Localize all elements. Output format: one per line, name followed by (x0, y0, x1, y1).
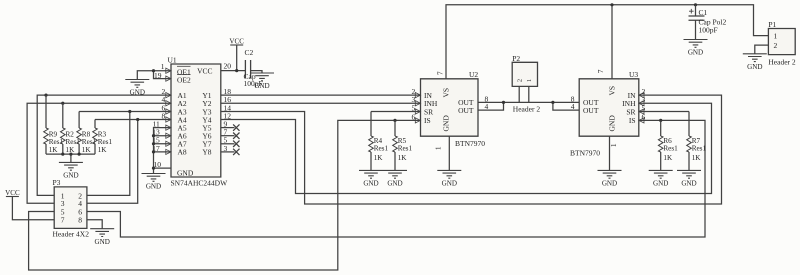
resistor R8 1K (77, 112, 97, 155)
svg-text:C1: C1 (699, 8, 708, 17)
resistor R7 1K (687, 112, 707, 171)
wire net P3 pin6 to U3 IS (bottom loop) (87, 119, 705, 237)
svg-text:GND: GND (442, 180, 457, 188)
svg-text:1: 1 (161, 62, 165, 71)
resistor R2 1K (61, 103, 81, 154)
svg-text:VS: VS (442, 88, 451, 98)
ground GND at P3 pin8 (90, 229, 114, 246)
svg-text:Res1: Res1 (398, 145, 413, 153)
svg-text:GND: GND (95, 238, 110, 246)
svg-text:SR: SR (626, 107, 635, 116)
wire U3 GND pin1 to ground (609, 136, 611, 170)
svg-text:OUT: OUT (583, 106, 599, 115)
power VCC above C2 (229, 38, 244, 46)
ground GND at U1 OE pins (125, 80, 149, 97)
svg-text:GND: GND (747, 63, 762, 71)
wire OE1/OE2 net to ground (137, 69, 171, 79)
svg-text:Res1: Res1 (663, 145, 678, 153)
wire net Y1: U1 pin18 to U2 IN (221, 94, 421, 96)
resistor R3 1K (93, 120, 113, 155)
svg-text:IS: IS (629, 116, 636, 125)
wire P1 pin2 to ground (755, 45, 769, 54)
ground GND at U2 pin1 (437, 170, 461, 187)
wire ground rail under R9 R2 R8 R3 (46, 153, 95, 163)
ground GND under R6 (649, 170, 673, 187)
transistor driver U2 BTN7970 (412, 70, 489, 150)
svg-text:7: 7 (435, 71, 444, 75)
wire net A2: U1 pin4 to P3 pin3 and R2 (27, 102, 171, 204)
op-amp U1 buffer SN74AHC244DW (152, 56, 239, 188)
ground GND at C1 (684, 40, 708, 57)
resistor R4 1K (369, 112, 389, 171)
wire U2 GND pin1 to ground (448, 136, 450, 170)
svg-text:Header 2: Header 2 (768, 57, 796, 66)
wire VS supply rail to U2 U3 and P1 pin1 (446, 3, 768, 79)
svg-text:VCC: VCC (229, 38, 244, 46)
svg-text:1K: 1K (82, 146, 92, 154)
svg-text:Y8: Y8 (202, 148, 211, 157)
svg-text:U2: U2 (469, 70, 478, 79)
resistor R5 1K (393, 120, 413, 170)
wire net A4: U1 pin8 to P3 pin4 and R3 (87, 118, 171, 203)
capacitor C2 100pF (244, 48, 263, 88)
resistor R6 1K (658, 120, 678, 170)
svg-text:Res1: Res1 (374, 145, 389, 153)
svg-text:GND: GND (63, 172, 78, 180)
svg-text:GND: GND (254, 82, 269, 90)
svg-text:7: 7 (61, 216, 65, 225)
wire net Y2: U1 pin16 to U2 INH (221, 102, 421, 104)
ground GND at P1 pin2 (743, 54, 767, 71)
svg-text:Header 4X2: Header 4X2 (53, 230, 90, 239)
svg-text:GND: GND (608, 115, 617, 132)
svg-text:GND: GND (653, 180, 668, 188)
svg-text:2: 2 (517, 79, 524, 82)
wire P3 pin8 to ground (87, 220, 102, 229)
wire U3 SR to R7 (639, 111, 689, 113)
svg-text:BTN7970: BTN7970 (570, 149, 600, 158)
ground GND under R5 (383, 170, 407, 187)
ground GND at U3 pin1 (598, 170, 622, 187)
svg-text:P2: P2 (512, 54, 520, 63)
svg-text:U3: U3 (629, 70, 638, 79)
svg-text:Res1: Res1 (692, 145, 707, 153)
svg-text:100pF: 100pF (699, 26, 718, 35)
wire U3 OUT pins to P2 pin1 (529, 86, 579, 110)
svg-text:1: 1 (609, 143, 618, 147)
svg-text:Res1: Res1 (98, 138, 113, 146)
connector P2 Header 2 (512, 54, 540, 114)
svg-text:1K: 1K (692, 154, 702, 162)
svg-text:GND: GND (602, 180, 617, 188)
svg-text:BTN7970: BTN7970 (455, 139, 485, 148)
svg-text:U1: U1 (168, 56, 177, 65)
svg-text:GND: GND (681, 180, 696, 188)
svg-text:GND: GND (387, 180, 402, 188)
svg-text:VCC: VCC (197, 67, 212, 76)
svg-text:OUT: OUT (458, 106, 474, 115)
wire net Y4: U1 pin12 looping to U3 INH (221, 103, 712, 193)
wire net Y3: U1 pin14 looping to U3 IN (221, 95, 722, 204)
svg-text:20: 20 (224, 62, 232, 71)
svg-text:4: 4 (571, 102, 575, 111)
wire VCC to P3 pin7 (12, 197, 54, 220)
svg-text:7: 7 (596, 69, 605, 73)
svg-text:1: 1 (526, 79, 533, 82)
svg-text:2: 2 (774, 41, 778, 50)
power VCC at P3 pin7 (5, 189, 20, 197)
svg-text:SN74AHC244DW: SN74AHC244DW (171, 179, 229, 188)
transistor driver U3 BTN7970 (570, 69, 646, 157)
svg-text:1K: 1K (98, 146, 108, 154)
ground GND under pull-down resistors (59, 162, 83, 179)
svg-text:GND: GND (177, 168, 194, 177)
connector P1 Header 2 (768, 20, 796, 66)
svg-text:A8: A8 (178, 148, 187, 157)
svg-text:OE2: OE2 (177, 75, 191, 84)
svg-text:1K: 1K (663, 154, 673, 162)
svg-text:GND: GND (442, 115, 451, 132)
wire net A5-A8 tied to GND with U1 pin10 (152, 128, 171, 174)
svg-text:1: 1 (434, 146, 443, 150)
wire U2 OUT pins to P2 pin2 (478, 86, 529, 110)
svg-text:1K: 1K (49, 146, 59, 154)
ground GND at C2 (250, 73, 274, 90)
capacitor C1 Cap Pol2 100pF (689, 5, 727, 40)
wire VCC to U1 pin 20 and C2 (221, 45, 262, 73)
wire net A1: U1 pin2 to P3 pin1 and R9 (37, 94, 171, 196)
svg-text:GND: GND (688, 49, 703, 57)
svg-text:8: 8 (78, 216, 82, 225)
svg-text:VS: VS (608, 86, 617, 96)
wire net P3 pin5 to U2 IS (bottom loop) (29, 119, 421, 270)
svg-text:IS: IS (424, 116, 431, 125)
svg-text:GND: GND (146, 183, 161, 191)
resistor R9 1K (44, 95, 64, 154)
svg-text:VCC: VCC (5, 189, 20, 197)
svg-text:1K: 1K (398, 154, 408, 162)
svg-text:C2: C2 (245, 48, 254, 57)
svg-text:SR: SR (424, 107, 433, 116)
svg-text:Res1: Res1 (49, 138, 64, 146)
svg-text:1: 1 (774, 32, 778, 41)
connector P3 Header 4X2 (53, 178, 90, 238)
svg-text:1K: 1K (66, 146, 76, 154)
svg-text:P1: P1 (768, 20, 776, 29)
ground GND under R4 (359, 170, 383, 187)
svg-text:P3: P3 (53, 178, 61, 187)
ground GND under R7 (677, 170, 701, 187)
wire net A3: U1 pin6 to P3 pin2 and R8 (79, 110, 171, 195)
svg-text:1K: 1K (374, 154, 384, 162)
svg-text:Header 2: Header 2 (513, 105, 541, 114)
svg-text:GND: GND (363, 180, 378, 188)
wire U2 SR to R4 (371, 111, 421, 113)
ground GND at U1 pin10 (142, 174, 166, 191)
